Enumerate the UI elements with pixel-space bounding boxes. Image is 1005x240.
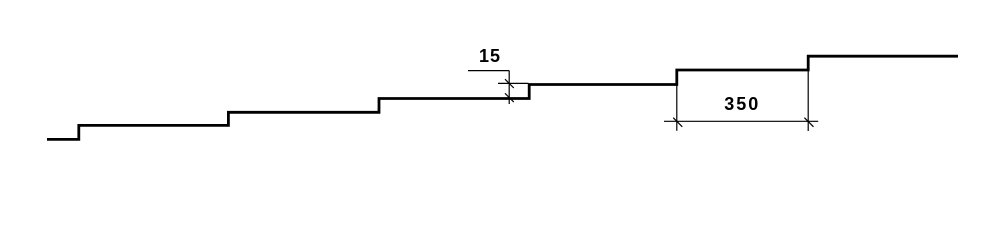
dimension 15 tick lower bbox=[505, 93, 514, 102]
dimension 15 extension line (step top) bbox=[498, 82, 529, 84]
svg-text:15: 15 bbox=[479, 46, 501, 66]
dimension 15 leader line bbox=[468, 70, 509, 72]
dimension 350 dimension line bbox=[664, 120, 818, 122]
dimension 15 tick upper bbox=[505, 79, 514, 88]
dimension 15 dimension line (vertical) bbox=[508, 71, 510, 104]
dimension 350 extension line left bbox=[676, 72, 678, 131]
dimension 350 extension line right bbox=[807, 71, 809, 131]
dimension 350 tick right bbox=[804, 118, 813, 127]
svg-text:350: 350 bbox=[724, 94, 760, 114]
dimension 350 tick left bbox=[673, 118, 682, 127]
stair profile polyline bbox=[47, 56, 958, 139]
